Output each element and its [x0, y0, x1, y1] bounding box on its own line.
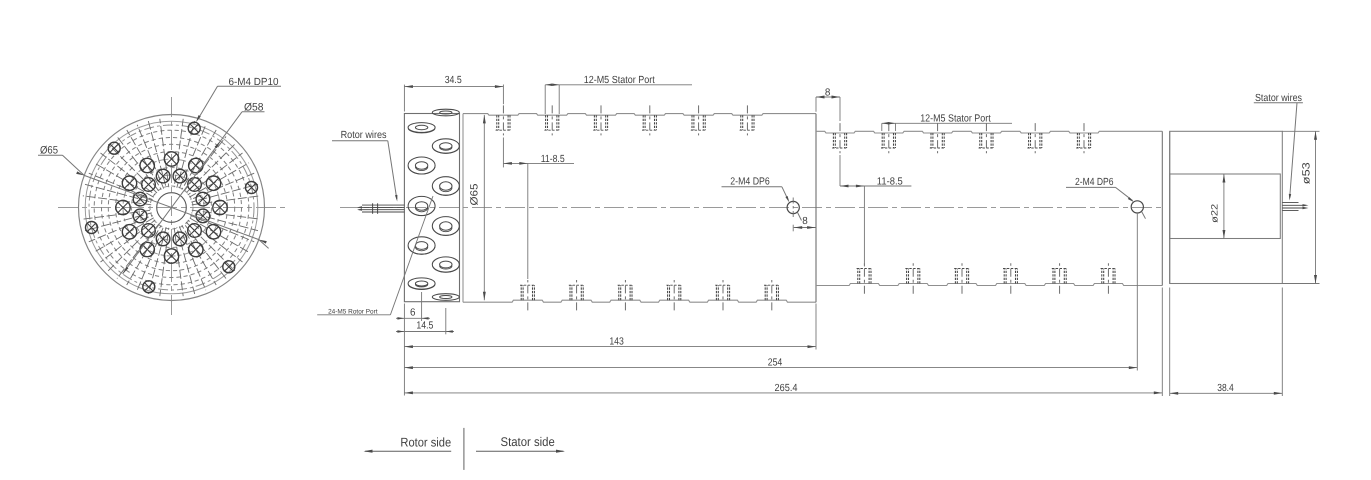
section1 top edge — [463, 114, 816, 116]
section1 bottom edge — [463, 300, 816, 302]
svg-text:254: 254 — [768, 358, 783, 369]
svg-text:6: 6 — [410, 307, 416, 318]
section2 bottom edge — [816, 284, 1162, 286]
svg-text:Ø65: Ø65 — [40, 144, 58, 156]
M4 hole near step — [787, 198, 799, 219]
svg-text:Rotor wires: Rotor wires — [341, 130, 387, 141]
dimension 38.4 — [1170, 288, 1283, 397]
svg-text:11-8.5: 11-8.5 — [877, 176, 903, 187]
label Stator wires — [1254, 93, 1303, 201]
dimension 34.5 — [404, 75, 503, 112]
center dashed circle — [150, 186, 193, 229]
dimension Ø58 — [123, 101, 265, 274]
label 24-M5 Rotor Port — [317, 196, 433, 315]
dashed circle r63 — [108, 144, 234, 270]
svg-text:12-M5 Stator Port: 12-M5 Stator Port — [584, 75, 655, 86]
section2 top edge — [816, 131, 1162, 133]
rotor/stator separator line — [463, 428, 465, 470]
svg-text:8: 8 — [825, 87, 831, 98]
label Rotor side — [364, 436, 452, 453]
center bore circle — [157, 193, 187, 223]
svg-text:Ø65: Ø65 — [469, 183, 481, 205]
svg-text:14.5: 14.5 — [416, 321, 433, 332]
label 12-M5 Stator Port (section2) — [882, 113, 1012, 131]
section2 top stator ports (6x M5) — [832, 123, 1092, 153]
rotor port column A (x=6) — [408, 123, 435, 290]
label 2-M4 DP6 (first) — [722, 176, 802, 220]
dimension Ø65 (left view) — [38, 144, 269, 248]
svg-text:8: 8 — [802, 216, 808, 227]
bolt circle Ø58 — [89, 125, 254, 290]
section1/section2 step edge — [815, 114, 817, 303]
svg-text:11-8.5: 11-8.5 — [541, 154, 565, 165]
end cap outline — [1170, 131, 1283, 283]
end cap left edge — [1169, 131, 1171, 283]
rotor flange outline — [404, 114, 463, 303]
label 6-M4 DP10 — [196, 77, 281, 122]
left view vertical centerline — [171, 97, 173, 318]
svg-text:265.4: 265.4 — [775, 383, 798, 394]
radial dashed lines — [83, 119, 260, 296]
label 12-M5 Stator Port (section1) — [545, 75, 692, 114]
stator wires — [1282, 203, 1308, 211]
svg-text:ø22: ø22 — [1210, 204, 1220, 223]
dashed circle r56 — [116, 152, 228, 264]
6x M4 DP10 holes — [86, 122, 258, 293]
main centerline — [340, 207, 1165, 209]
rotor port column B (x=14.5) — [432, 109, 459, 300]
left view horizontal centerline — [58, 207, 288, 209]
dimension 14.5 — [396, 308, 454, 334]
svg-text:2-M4 DP6: 2-M4 DP6 — [730, 176, 770, 187]
dimension Ø22 — [1210, 174, 1226, 239]
dimension 265.4 — [404, 288, 1162, 397]
M4 hole near end cap — [1131, 201, 1143, 213]
section1 bottom stator ports (6x M5) — [520, 280, 780, 310]
dimension 11-8.5 (section1) — [503, 138, 574, 280]
section1 top stator ports (6x M5) — [496, 105, 756, 135]
section2 right edge — [1161, 131, 1163, 285]
svg-text:143: 143 — [609, 337, 624, 348]
label Rotor wires — [332, 130, 397, 202]
rotor wires — [357, 203, 404, 214]
svg-text:2-M4 DP6: 2-M4 DP6 — [1075, 177, 1114, 188]
section2 bottom stator ports (6x M5) — [857, 263, 1117, 293]
rotor port outer ring (12x M5) — [116, 152, 227, 263]
dimension 6 — [396, 292, 430, 321]
dashed circle r70 — [102, 138, 242, 278]
label 2-M4 DP6 (second) — [1066, 177, 1146, 219]
svg-text:Rotor side: Rotor side — [400, 436, 451, 450]
svg-text:12-M5 Stator Port: 12-M5 Stator Port — [920, 113, 991, 124]
svg-text:Stator side: Stator side — [501, 435, 555, 449]
dimension 143 — [404, 304, 816, 350]
dimension Ø65 (side view) — [469, 115, 486, 300]
dimension 11-8.5 (section2) — [840, 155, 911, 267]
label Stator side — [476, 435, 565, 453]
dimension 8 (bottom) — [793, 216, 815, 231]
dashed circle r77 — [94, 130, 249, 285]
rotor port inner ring (12x M5) — [133, 169, 209, 245]
svg-text:ø53: ø53 — [1300, 162, 1312, 184]
svg-text:38.4: 38.4 — [1217, 383, 1234, 394]
dimension 8 (top) — [816, 87, 840, 121]
port ring circle outer — [123, 159, 220, 256]
dimension Ø53 — [1282, 131, 1319, 283]
svg-text:34.5: 34.5 — [445, 75, 462, 86]
flange-left extension line — [403, 304, 405, 396]
stator shaft Ø22 rectangle — [1170, 174, 1281, 239]
rim circle — [85, 121, 258, 294]
dimension 254 — [404, 213, 1137, 371]
dashed circle r40 — [132, 168, 212, 248]
port ring circle inner — [139, 175, 204, 240]
outer circle Ø65 — [79, 115, 265, 301]
